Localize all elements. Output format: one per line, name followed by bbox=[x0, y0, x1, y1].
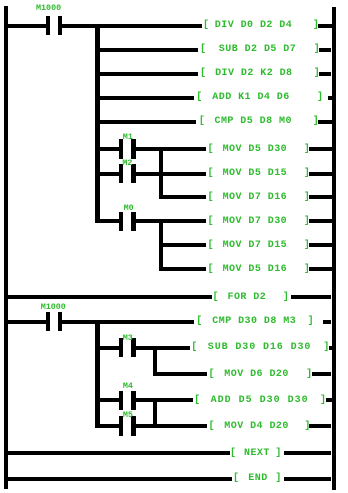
contact M2 (rung 7) bbox=[119, 164, 123, 183]
value label row 14: [ SUB D30 D16 D30 ] bbox=[191, 341, 197, 355]
value label row 10: [ MOV D7 D15 ] bbox=[208, 239, 214, 253]
wire row3 to right rail bbox=[319, 72, 332, 76]
wire branch to MOV row11 bbox=[159, 267, 206, 271]
contact M4 (rung 16) bbox=[119, 391, 123, 410]
wire branch to MOV row10 bbox=[159, 243, 206, 247]
contact M1000 (rung 13) bbox=[46, 312, 50, 331]
wire row13 stub to right rail bbox=[323, 320, 331, 324]
left power rail bbox=[4, 6, 8, 489]
value label row 7: [ MOV D5 D15 ] bbox=[208, 167, 214, 181]
value label row 18: [ NEXT ] bbox=[230, 447, 236, 461]
wire rail to NEXT bbox=[8, 451, 230, 455]
wire row1 to right rail bbox=[318, 24, 332, 28]
value label row 6: [ MOV D5 D30 ] bbox=[208, 143, 214, 157]
contact M1 (rung 6) bbox=[119, 139, 123, 158]
wire branch to CMP row5 bbox=[95, 120, 195, 124]
wire END to right rail bbox=[284, 477, 332, 481]
wire branch vertical rows 14-15 bbox=[153, 346, 157, 376]
wire row2 to right rail bbox=[319, 48, 332, 52]
contact M5 (rung 17) bbox=[119, 416, 123, 435]
wire contact M2 to MOV row7 bbox=[136, 172, 206, 176]
contact M0 (rung 9) bbox=[119, 212, 123, 231]
wire row8 to right rail bbox=[309, 195, 332, 199]
wire rail to FOR bbox=[8, 295, 212, 299]
wire branch to MOV row8 bbox=[159, 195, 206, 199]
contact M3 (rung 14) bbox=[119, 338, 123, 357]
wire main branch vertical (bottom section) bbox=[95, 320, 99, 428]
wire row10 to right rail bbox=[309, 243, 332, 247]
value label row 9: [ MOV D7 D30 ] bbox=[208, 215, 214, 229]
wire branch to SUB row2 bbox=[95, 48, 198, 52]
wire contact M4 to ADD row16 bbox=[136, 398, 193, 402]
label M4 (contact M4 top) bbox=[123, 382, 133, 391]
value label row 1: [ DIV D0 D2 D4 ] bbox=[203, 19, 209, 33]
label M5 (contact M5 top) bbox=[123, 411, 133, 420]
label M1 (contact M1 top) bbox=[123, 133, 133, 142]
wire branch to contact M4 bbox=[95, 398, 119, 402]
wire NEXT to right rail bbox=[284, 451, 331, 455]
wire branch to contact M0 bbox=[95, 219, 119, 223]
label M2 (contact M2 top) bbox=[122, 159, 132, 168]
wire contact M0 to MOV row9 bbox=[136, 219, 206, 223]
wire rail to contact M1000 bbox=[8, 24, 46, 28]
wire row15 to right rail bbox=[312, 372, 332, 376]
wire row6 to right rail bbox=[309, 147, 332, 151]
wire row16 stub to right rail bbox=[326, 398, 332, 402]
value label row 15: [ MOV D6 D20 ] bbox=[209, 368, 215, 382]
value label row 2: [ SUB D2 D5 D7 ] bbox=[200, 43, 206, 57]
label M3 (contact M3 top) bbox=[123, 334, 133, 343]
wire branch vertical rows 16-17 bbox=[153, 398, 157, 428]
value label row 11: [ MOV D5 D16 ] bbox=[208, 263, 214, 277]
wire contact M1000 to CMP row13 bbox=[62, 320, 194, 324]
wire row4 short stub at right rail bbox=[328, 96, 334, 100]
wire contact M5 to MOV row17 bbox=[136, 424, 208, 428]
wire branch to MOV row15 bbox=[153, 372, 207, 376]
wire rail to contact M1000 bottom bbox=[8, 320, 46, 324]
value label row 8: [ MOV D7 D16 ] bbox=[208, 191, 214, 205]
wire contact M1 to MOV row6 bbox=[136, 147, 206, 151]
wire row9 to right rail bbox=[309, 219, 332, 223]
wire branch to contact M5 bbox=[95, 424, 119, 428]
value label row 12: [ FOR D2 ] bbox=[213, 291, 219, 305]
wire contact M3 to SUB row14 bbox=[136, 346, 190, 350]
contact M1000 (rung 1) bbox=[46, 16, 50, 35]
wire rail to END bbox=[8, 477, 232, 481]
wire branch to DIV row3 bbox=[95, 72, 198, 76]
label M1000 (contact M1000 bottom) bbox=[41, 303, 66, 312]
value label row 16: [ ADD D5 D30 D30 ] bbox=[194, 394, 200, 408]
value label row 19: [ END ] bbox=[233, 472, 239, 486]
wire branch to ADD row4 bbox=[95, 96, 193, 100]
wire row5 to right rail bbox=[318, 120, 332, 124]
value label row 5: [ CMP D5 D8 M0 ] bbox=[199, 115, 205, 129]
wire contact M1000 to DIV bbox=[62, 24, 202, 28]
wire branch to contact M1 bbox=[95, 147, 119, 151]
right power rail bbox=[332, 7, 337, 491]
value label row 13: [ CMP D30 D8 M3 ] bbox=[196, 315, 202, 329]
value label row 17: [ MOV D4 D20 ] bbox=[209, 420, 215, 434]
wire row14 nub at right rail bbox=[329, 346, 332, 350]
wire row11 to right rail bbox=[309, 267, 332, 271]
label M0 (contact M0 top) bbox=[124, 204, 134, 213]
value label row 4: [ ADD K1 D4 D6 ] bbox=[196, 91, 202, 105]
value label row 3: [ DIV D2 K2 D8 ] bbox=[200, 67, 206, 81]
wire branch vertical rows 6-8 bbox=[159, 147, 163, 199]
wire FOR to right rail bbox=[291, 295, 332, 299]
wire main branch vertical (top section) bbox=[95, 24, 99, 224]
wire row17 to right rail bbox=[309, 424, 331, 428]
wire branch to contact M2 bbox=[95, 172, 119, 176]
wire branch to contact M3 bbox=[95, 346, 119, 350]
wire row7 to right rail bbox=[309, 172, 332, 176]
label M1000 (contact M1000 top) bbox=[36, 4, 61, 13]
wire branch vertical rows 9-11 bbox=[159, 219, 163, 271]
